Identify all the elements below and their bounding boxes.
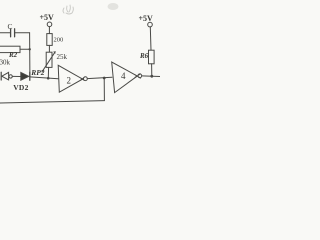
svg-text:RP2: RP2 <box>30 68 45 77</box>
svg-text:4: 4 <box>121 71 126 81</box>
svg-text:2: 2 <box>67 76 72 86</box>
label RP2 <box>30 68 45 77</box>
wire: RP2 bottom lead <box>47 67 49 78</box>
diode VD1 (left, pointing left) cathode bar <box>0 72 2 80</box>
svg-text:+5V: +5V <box>40 13 55 22</box>
potentiometer RP2 box <box>46 52 52 67</box>
+5V supply terminal (left) <box>40 13 55 22</box>
wire: left lead of C <box>0 32 10 34</box>
+5V supply terminal (right) <box>139 14 154 23</box>
diode VD2 cathode bar <box>29 72 31 80</box>
junction dot pot lead <box>47 77 50 80</box>
wire: bottom rail <box>0 101 104 103</box>
label 4 <box>121 71 126 81</box>
junction dot feedback <box>103 77 106 80</box>
svg-text:+5V: +5V <box>139 14 154 23</box>
terminal circle <box>47 22 52 27</box>
label 25k <box>57 53 68 61</box>
label R2 <box>8 51 18 59</box>
wire: C right lead to node column <box>15 32 29 34</box>
inverter U2 apex overshoot strokes <box>81 77 85 80</box>
inverter U4 triangle <box>112 62 138 93</box>
wire: terminal to R6 <box>149 27 152 50</box>
inverter U4 output bubble <box>138 74 142 78</box>
svg-text:25k: 25k <box>57 53 68 61</box>
wire: vertical node column x=29.6 <box>29 33 31 77</box>
resistor R1 200 box <box>47 34 52 46</box>
label VD2 <box>13 83 28 92</box>
label 200 <box>54 37 64 44</box>
wire: R6 bottom lead <box>151 64 153 76</box>
label 30k <box>0 59 11 67</box>
label 2 <box>67 76 72 86</box>
resistor R6 box <box>149 50 155 64</box>
potentiometer RP2 wiper arrow <box>42 52 55 72</box>
capacitor C plates <box>11 29 15 37</box>
diode VD2 (solid, pointing right) <box>21 72 29 80</box>
wire: U2 out to U4 in <box>87 77 112 78</box>
wire: feedback vertical <box>103 78 105 101</box>
label R6 <box>139 52 149 60</box>
svg-text:200: 200 <box>54 37 64 44</box>
diode VD1 triangle <box>2 72 9 80</box>
wire: diode node to inverter input <box>30 77 58 79</box>
inverter U2 triangle <box>58 65 82 92</box>
svg-text:R6: R6 <box>139 52 149 60</box>
resistor R2 box <box>0 46 20 52</box>
inverter U4 apex overshoot strokes <box>135 74 141 78</box>
small circle terminal after VD1 <box>9 75 12 78</box>
wire VD1 to VD2 <box>12 75 20 77</box>
wire: U4 output to right edge <box>142 75 160 78</box>
smudge mark (scan artifact) top middle <box>63 5 73 14</box>
wire: R1 to RP2 <box>48 45 50 52</box>
faint scan blob top right of centre <box>108 3 119 10</box>
junction dot output/R6 <box>150 75 153 78</box>
terminal circle right <box>148 22 153 27</box>
svg-text:30k: 30k <box>0 59 11 67</box>
wire: terminal to R1 <box>48 27 50 34</box>
wire: R2 to node <box>20 48 30 50</box>
junction node R2/C <box>29 48 31 50</box>
inverter U2 output bubble <box>84 77 88 81</box>
capacitor C label <box>8 22 13 31</box>
svg-text:VD2: VD2 <box>13 83 28 92</box>
